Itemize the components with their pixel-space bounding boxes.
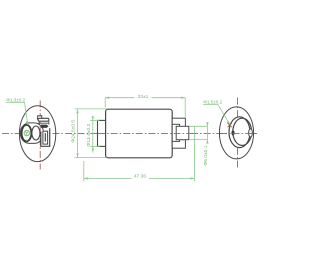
wire bracket left verticals — [39, 121, 49, 125]
node motor notch — [172, 124, 179, 141]
svg-text:47.36: 47.36 — [134, 173, 146, 179]
node left view hub spokes — [25, 131, 29, 136]
wire vertical centerline right view — [237, 98, 239, 169]
dimension left cap diameter — [90, 116, 100, 152]
node left view bracket thick bar — [41, 125, 48, 128]
node motor left cap — [98, 120, 106, 146]
dimension top 33±1 — [105, 98, 185, 117]
node left view bracket top tab — [38, 116, 42, 119]
node left view green hub circle — [24, 130, 29, 135]
node right view circle A — [229, 117, 250, 148]
node left view bearing ring — [22, 125, 32, 141]
node right view shaft dot — [231, 130, 234, 135]
svg-text:33±1: 33±1 — [138, 94, 149, 100]
node motor body — [106, 109, 173, 158]
dimension bottom 47.36 — [84, 126, 195, 181]
svg-text:Φ13.4±0.2: Φ13.4±0.2 — [86, 123, 92, 146]
node left view bracket U box — [41, 128, 50, 146]
node right view circle B — [233, 118, 252, 145]
wire horizontal main centerline — [2, 132, 257, 134]
node left view bracket slot — [43, 131, 48, 144]
node left view stadium holder — [20, 123, 43, 143]
node right view small circle C — [249, 129, 253, 137]
node left view bracket top bar — [38, 118, 49, 121]
node right leader cross marker — [228, 123, 232, 127]
node left view hub bottom dot — [26, 140, 28, 142]
node right end view outer ellipse — [219, 107, 253, 159]
wire redraw red centerlines right view — [220, 132, 256, 134]
wire redraw centerline over body — [98, 132, 195, 134]
wire vertical centerline left view — [39, 101, 41, 170]
svg-text:Φ6.0±0.1: Φ6.0±0.1 — [203, 145, 209, 165]
node motor end bell — [172, 118, 185, 148]
svg-text:Φ1.3±0.2: Φ1.3±0.2 — [6, 97, 25, 102]
node motor boss — [176, 126, 189, 139]
wire bracket bar underline — [38, 122, 48, 124]
node left view slot pin — [44, 133, 46, 142]
dimension left body diameter — [75, 109, 108, 158]
node left view circle2 — [32, 126, 40, 140]
svg-text:Φ1.5±0.2: Φ1.5±0.2 — [203, 100, 222, 105]
dimension right boss diameter — [189, 123, 207, 144]
svg-text:Φ24.5±0.5: Φ24.5±0.5 — [71, 120, 77, 143]
node left end view outer ellipse — [19, 106, 55, 162]
